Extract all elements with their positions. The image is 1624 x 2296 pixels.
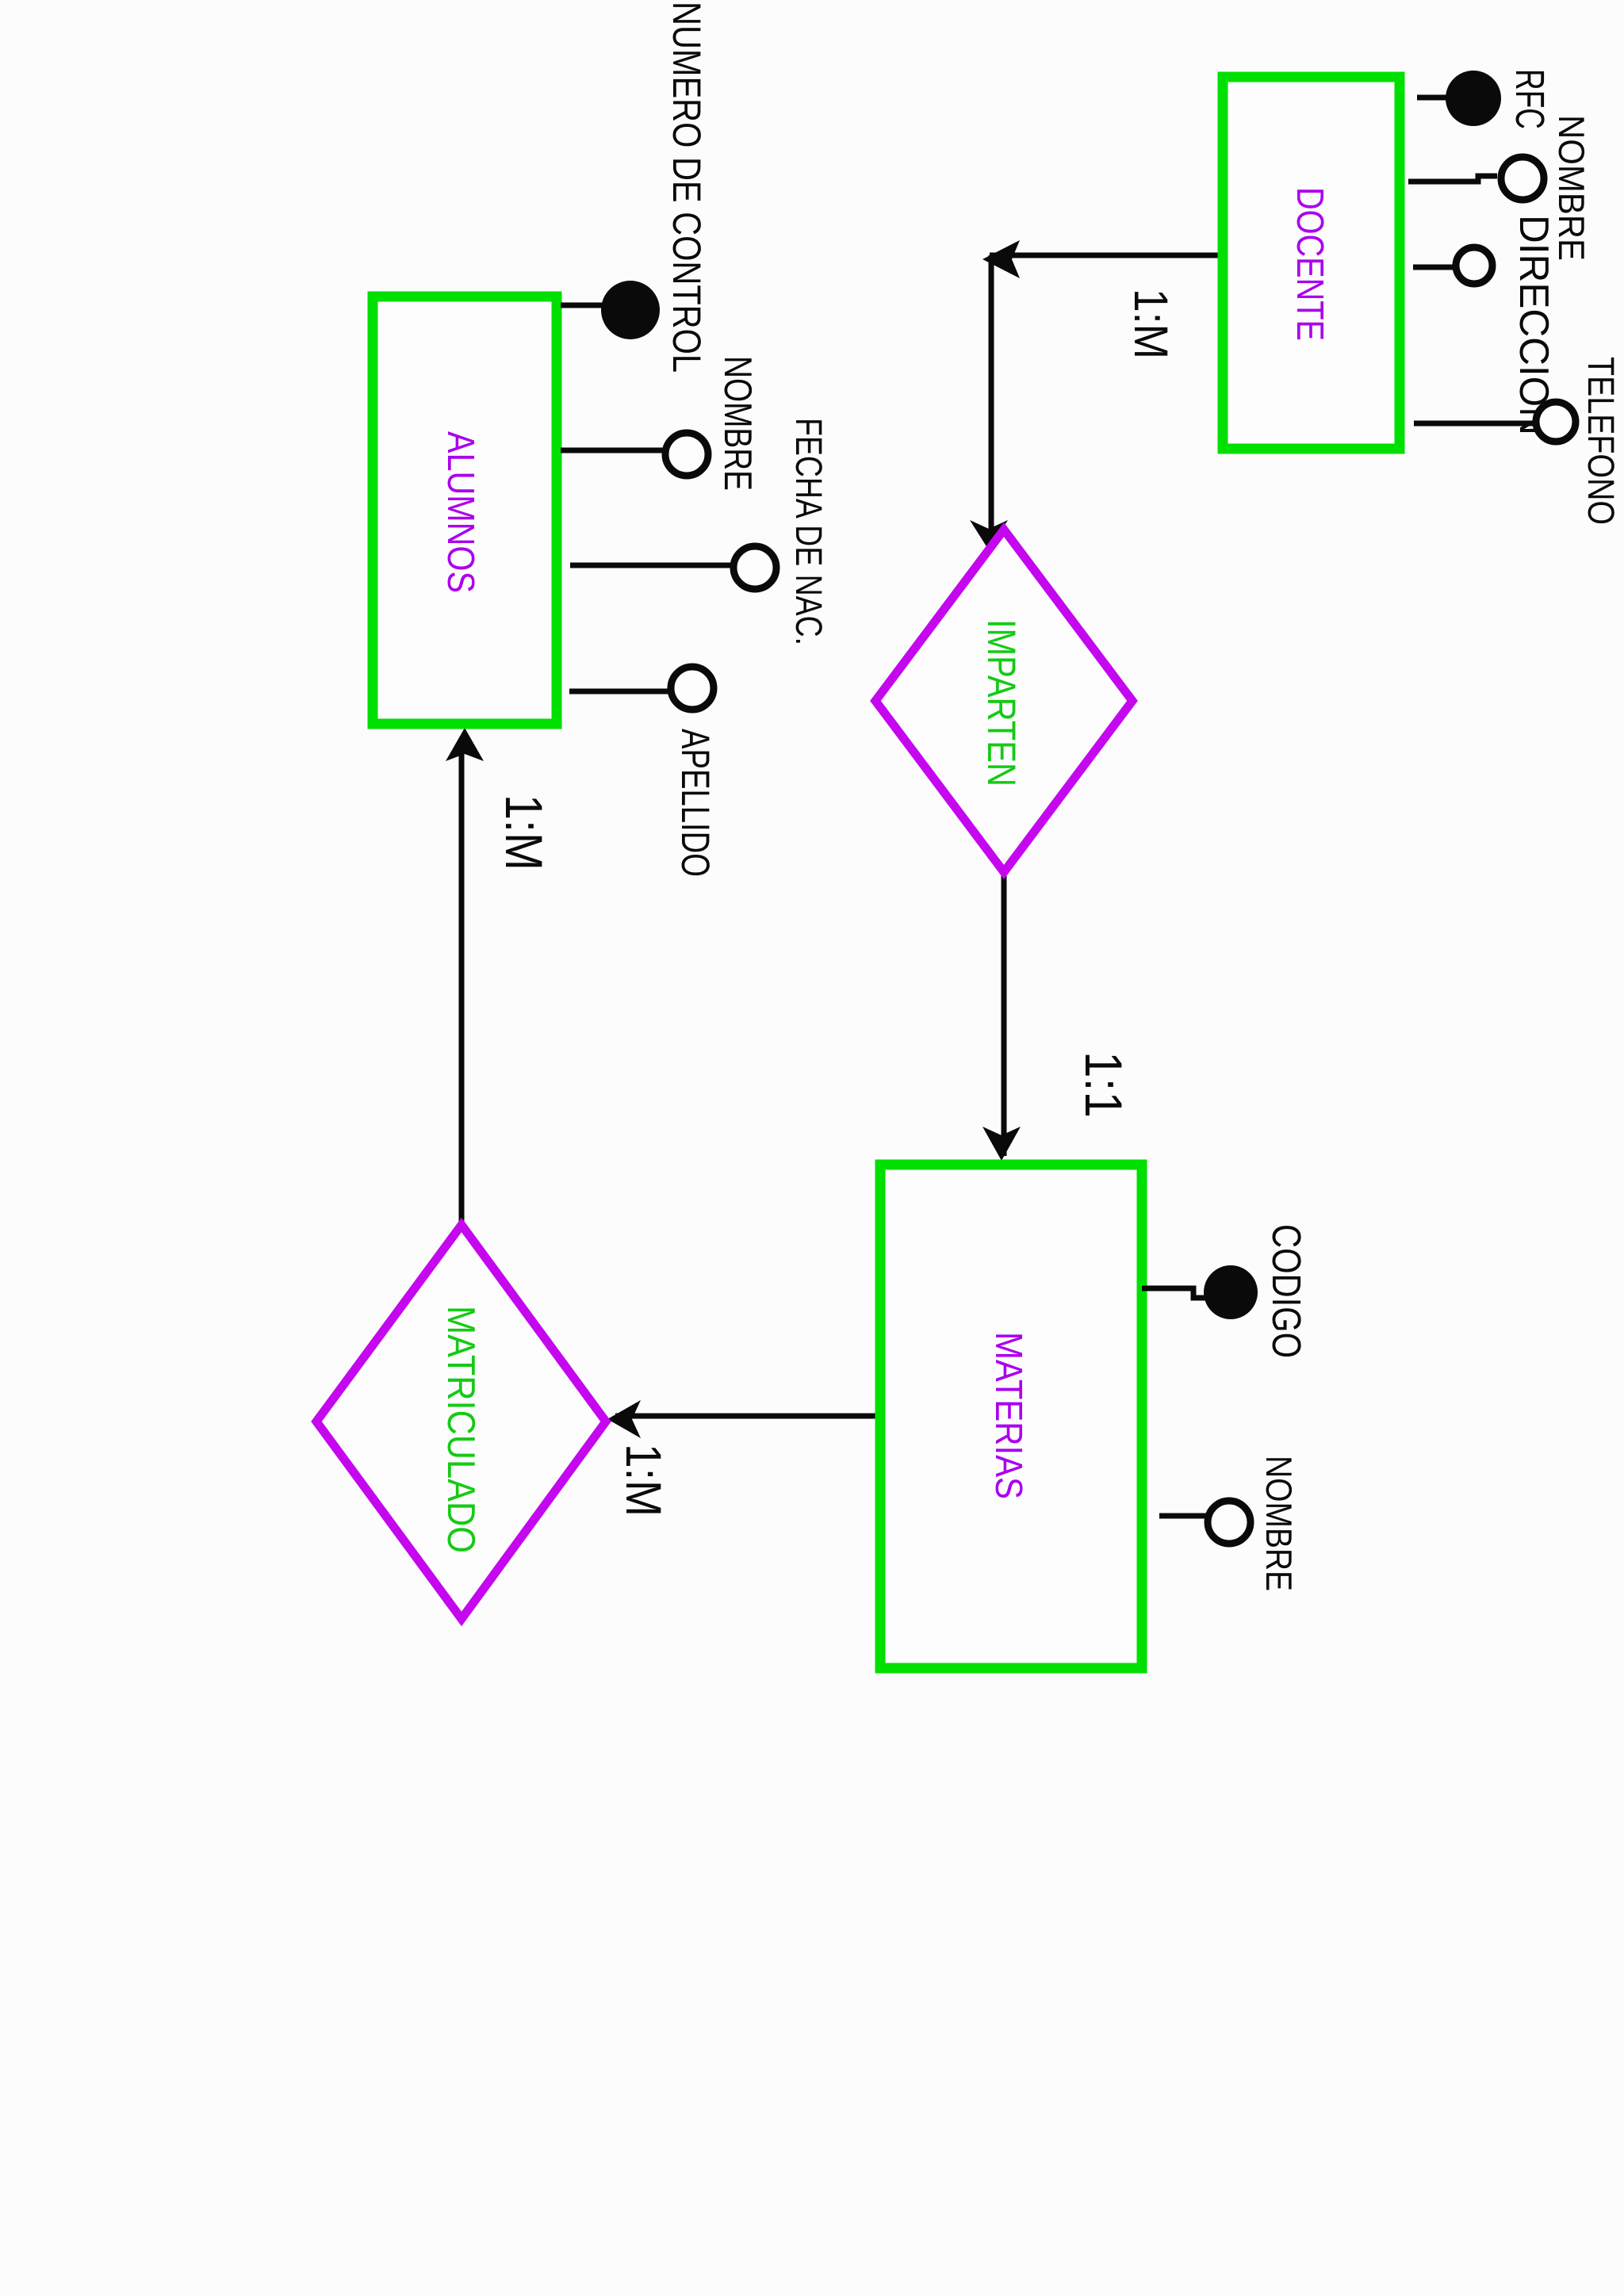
attribute FECHA DE NAC. circle xyxy=(733,546,776,589)
attribute NOMBRE (ALUMNOS) circle xyxy=(665,433,708,476)
arrowhead into MATRICULADO pointing down xyxy=(607,1400,641,1438)
relationship IMPARTEN xyxy=(875,530,1132,872)
attribute TELEFONO circle xyxy=(1536,402,1576,442)
svg-text:1:1: 1:1 xyxy=(1074,1051,1133,1118)
svg-text:ALUMNOS: ALUMNOS xyxy=(439,431,481,593)
wire IMPARTEN to MATERIAS xyxy=(1002,872,1007,1156)
entity MATERIAS xyxy=(880,1165,1142,1668)
entity DOCENTE xyxy=(1223,77,1400,449)
svg-text:1:M: 1:M xyxy=(615,1444,671,1517)
attribute CODIGO key circle xyxy=(1204,1265,1258,1319)
svg-text:NUMERO DE CONTROL: NUMERO DE CONTROL xyxy=(665,2,709,373)
attribute stem FECHA DE NAC. xyxy=(570,563,732,568)
attribute NOMBRE (MATERIAS) circle xyxy=(1208,1501,1251,1544)
svg-text:DOCENTE: DOCENTE xyxy=(1289,187,1331,341)
attribute stem NOMBRE (ALUMNOS) xyxy=(561,448,663,453)
svg-text:NOMBRE: NOMBRE xyxy=(1258,1456,1300,1591)
svg-text:APELLIDO: APELLIDO xyxy=(673,729,718,877)
svg-text:NOMBRE: NOMBRE xyxy=(716,356,759,491)
attribute RFC key circle xyxy=(1446,71,1501,126)
attribute stem CODIGO with jog xyxy=(1142,1288,1205,1298)
wire MATRICULADO to ALUMNOS xyxy=(459,745,465,1225)
attribute stem APELLIDO xyxy=(569,689,669,695)
wire DOCENTE to IMPARTEN (vertical drop) xyxy=(990,253,1218,258)
svg-text:RFC: RFC xyxy=(1507,69,1553,129)
attribute NUMERO DE CONTROL key circle xyxy=(601,281,660,339)
svg-text:1:M: 1:M xyxy=(1124,289,1178,359)
arrowhead into MATERIAS pointing right xyxy=(982,1127,1021,1161)
attribute stem NOMBRE (DOCENTE) with jog xyxy=(1408,176,1497,182)
attribute APELLIDO circle xyxy=(671,667,714,710)
svg-text:1:M: 1:M xyxy=(495,794,553,871)
entity ALUMNOS xyxy=(373,297,557,724)
arrowhead into IMPARTEN pointing right xyxy=(970,520,1008,550)
svg-text:IMPARTEN: IMPARTEN xyxy=(979,619,1024,786)
attribute stem NOMBRE (MATERIAS) xyxy=(1159,1513,1207,1519)
svg-text:FECHA DE NAC.: FECHA DE NAC. xyxy=(788,418,830,645)
arrowhead into ALUMNOS pointing left xyxy=(446,728,484,761)
svg-text:TELEFONO: TELEFONO xyxy=(1580,357,1622,525)
svg-text:CODIGO: CODIGO xyxy=(1264,1224,1309,1358)
attribute stem TELEFONO xyxy=(1414,421,1534,427)
svg-text:MATERIAS: MATERIAS xyxy=(987,1332,1029,1499)
wire corner to IMPARTEN left vertex xyxy=(989,255,994,531)
attribute NOMBRE (DOCENTE) circle xyxy=(1501,157,1544,200)
attribute stem DIRECCION xyxy=(1413,265,1455,270)
attribute DIRECCION circle xyxy=(1456,247,1492,284)
wire MATERIAS to MATRICULADO xyxy=(615,1414,875,1419)
svg-text:MATRICULADO: MATRICULADO xyxy=(439,1306,482,1553)
attribute stem RFC xyxy=(1417,95,1446,101)
attribute stem NUMERO DE CONTROL xyxy=(561,303,603,308)
arrowhead at corner pointing down xyxy=(982,240,1020,278)
relationship MATRICULADO xyxy=(316,1225,606,1619)
